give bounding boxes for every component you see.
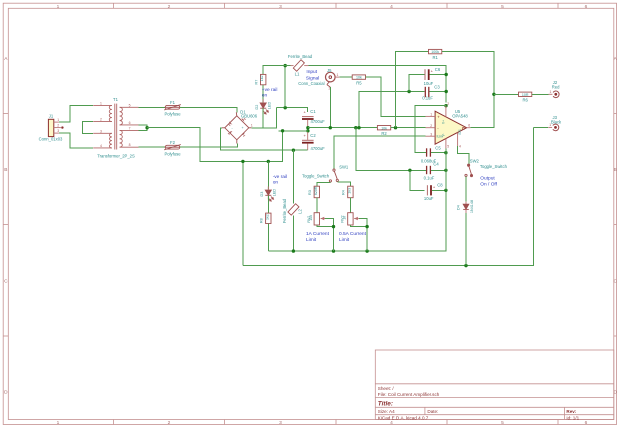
- svg-text:B: B: [4, 167, 7, 173]
- node bead rail junction: [284, 64, 287, 67]
- wire ILIM to SW1: [334, 136, 426, 169]
- node feedback at -in: [394, 126, 397, 129]
- capacitor C6: [424, 67, 441, 86]
- wire T1.2 to T1.3 loop: [82, 122, 93, 134]
- node C4 right: [444, 169, 447, 172]
- node V+ pin junction: [444, 104, 447, 107]
- svg-text:1: 1: [100, 101, 102, 105]
- svg-text:D4: D4: [457, 205, 461, 210]
- svg-text:R1: R1: [433, 55, 439, 60]
- wire C8 right to V- riser: [432, 189, 446, 191]
- svg-text:Conn_Coaxial: Conn_Coaxial: [298, 81, 324, 86]
- wire T1.8 to F2: [139, 146, 166, 148]
- wire -V bus: [268, 190, 446, 251]
- svg-text:+: +: [431, 69, 434, 74]
- wire E/S to SW2: [458, 146, 469, 164]
- toggle switch SW1: [329, 169, 338, 183]
- node -V bus at L2: [292, 249, 295, 252]
- svg-text:1k2: 1k2: [260, 76, 264, 82]
- toggle switch SW2: [465, 164, 473, 177]
- svg-text:+: +: [437, 114, 440, 119]
- svg-text:100k: 100k: [431, 50, 439, 54]
- coaxial connector J5: [326, 68, 340, 90]
- wire D4 to output 0V bus: [465, 213, 467, 266]
- svg-text:Size: A4: Size: A4: [378, 409, 395, 414]
- svg-text:F2: F2: [170, 140, 176, 145]
- svg-text:V-: V-: [442, 133, 446, 136]
- svg-text:Red: Red: [552, 85, 560, 90]
- svg-text:1: 1: [57, 420, 60, 426]
- svg-text:4700uF: 4700uF: [311, 119, 326, 124]
- wire J5 to R5: [339, 76, 352, 78]
- svg-text:Limit: Limit: [306, 237, 317, 243]
- fuse F2: [164, 140, 181, 157]
- svg-text:6: 6: [585, 4, 588, 10]
- svg-text:C6: C6: [435, 67, 441, 72]
- node C6 right on +V riser: [445, 73, 448, 76]
- svg-text:6: 6: [585, 420, 588, 426]
- svg-text:4: 4: [390, 420, 393, 426]
- wire R1 to output riser: [442, 52, 494, 128]
- svg-text:10R: 10R: [522, 93, 529, 97]
- node C6/C3 left join: [407, 90, 410, 93]
- svg-text:J1: J1: [49, 114, 54, 119]
- svg-text:-ve rail: -ve rail: [273, 174, 287, 180]
- svg-text:+: +: [304, 109, 307, 114]
- svg-text:KiCad E.D.A. kicad 4.0.7: KiCad E.D.A. kicad 4.0.7: [378, 415, 429, 420]
- wire SW2 throw to D4: [465, 177, 467, 202]
- svg-text:Conn_01x03: Conn_01x03: [39, 137, 63, 142]
- node -V bus at RV2: [365, 249, 368, 252]
- wire R4 to RV2: [349, 198, 351, 213]
- connector J2 red: [549, 80, 561, 98]
- resistor R1: [429, 49, 442, 60]
- svg-text:C5: C5: [435, 145, 441, 150]
- connector J1: [39, 114, 64, 142]
- node C8 right: [444, 189, 447, 192]
- wire T1.5 to F1: [139, 106, 166, 108]
- svg-text:V+: V+: [442, 120, 446, 124]
- svg-text:10uF: 10uF: [424, 196, 434, 201]
- svg-text:Transformer_2P_2S: Transformer_2P_2S: [97, 154, 135, 159]
- node C3 right on +V riser: [445, 90, 448, 93]
- node 0V bus at x242.9: [241, 160, 244, 163]
- wire R2 to op-amp -in: [391, 127, 426, 129]
- wire D3 to R8: [267, 195, 269, 213]
- wire 0V rail west segment: [279, 130, 308, 132]
- svg-text:5: 5: [447, 145, 449, 149]
- svg-text:L2: L2: [298, 209, 303, 214]
- svg-text:10k: 10k: [381, 126, 387, 130]
- wire +V top rail over to C1: [277, 108, 308, 113]
- svg-text:1A Current: 1A Current: [306, 231, 330, 237]
- capacitor C2: [302, 132, 325, 151]
- svg-text:B: B: [614, 167, 617, 173]
- resistor R3: [308, 186, 320, 198]
- svg-text:GBU606: GBU606: [241, 113, 258, 118]
- node 0V rail down branch: [354, 126, 357, 129]
- svg-text:6: 6: [129, 121, 131, 125]
- svg-text:Date:: Date:: [427, 409, 438, 414]
- wire +V rail bead to right riser: [309, 66, 447, 103]
- wire bead L2 to -V bus: [292, 216, 294, 251]
- node C2 top junction: [306, 129, 309, 132]
- resistor R7: [255, 74, 266, 84]
- capacitor C8: [424, 183, 443, 202]
- svg-text:+ve rail: +ve rail: [262, 87, 278, 93]
- svg-text:3: 3: [430, 132, 432, 136]
- resistor R2: [377, 126, 390, 137]
- svg-text:1: 1: [57, 4, 60, 10]
- svg-text:1: 1: [337, 73, 339, 77]
- svg-text:5: 5: [501, 4, 504, 10]
- LED D3: [265, 186, 273, 201]
- wire centre tap to 0V bus: [147, 128, 282, 162]
- svg-text:A: A: [4, 56, 8, 62]
- capacitor C1: [302, 109, 325, 126]
- node 0V west junction: [281, 129, 284, 132]
- transformer T1: [93, 104, 138, 150]
- wire LED D2 to bridge plus wire: [262, 108, 264, 128]
- wire bridge minus to -V line: [221, 128, 308, 150]
- svg-text:Rev:: Rev:: [566, 409, 576, 414]
- wire R7 to LED D2: [262, 85, 264, 103]
- wire output 0V bus: [243, 127, 534, 265]
- svg-text:E/S: E/S: [458, 129, 462, 134]
- wire J5 shield to 0V rail: [329, 87, 331, 128]
- wire 0V bus down branch to out bus: [242, 161, 244, 265]
- svg-text:R3: R3: [308, 190, 312, 195]
- svg-text:SW1: SW1: [339, 165, 349, 170]
- svg-text:4: 4: [459, 145, 461, 149]
- svg-text:J5: J5: [327, 68, 332, 73]
- wire V- pin riser: [445, 149, 447, 191]
- node output 0V bus at D4: [464, 264, 467, 267]
- svg-text:LED: LED: [273, 189, 277, 197]
- svg-text:3: 3: [279, 420, 282, 426]
- svg-text:2: 2: [100, 118, 102, 122]
- wire J1.1 to T1.1: [59, 105, 93, 122]
- ferrite bead L1: [288, 54, 313, 77]
- svg-text:C2: C2: [310, 133, 316, 138]
- svg-text:+: +: [242, 126, 244, 130]
- wire J1.3 to T1.4: [59, 133, 93, 148]
- svg-text:1k: 1k: [343, 216, 347, 220]
- svg-text:L1: L1: [295, 72, 300, 77]
- svg-text:LED: LED: [268, 102, 272, 110]
- svg-text:R5: R5: [356, 81, 362, 86]
- wire C6 right: [430, 74, 447, 76]
- svg-text:Polyfuse: Polyfuse: [164, 112, 181, 117]
- svg-text:-: -: [232, 126, 234, 130]
- svg-text:on: on: [262, 94, 268, 99]
- connector J3 black: [548, 115, 562, 131]
- svg-text:OPA548: OPA548: [452, 113, 468, 118]
- svg-text:1k3: 1k3: [347, 188, 351, 194]
- wire RV1 bottom to bus: [317, 225, 334, 251]
- svg-text:R8: R8: [260, 218, 264, 223]
- svg-text:+: +: [304, 133, 307, 138]
- svg-text:Toggle_Switch: Toggle_Switch: [480, 164, 508, 169]
- wire F1 to bridge top: [180, 107, 237, 112]
- wire J3 to 0V bus: [534, 126, 549, 128]
- wire RV2 bottom to bus: [350, 225, 367, 251]
- svg-text:C4: C4: [433, 162, 439, 167]
- svg-text:A: A: [614, 56, 618, 62]
- resistor R8: [260, 213, 271, 223]
- svg-text:0.5A Current: 0.5A Current: [339, 231, 367, 237]
- bridge rectifier D1: [222, 112, 251, 143]
- svg-text:1: 1: [550, 90, 552, 94]
- svg-text:10k: 10k: [356, 76, 362, 80]
- wire 0V rail down branch to C4/C8: [356, 128, 410, 171]
- node +V rail junction: [284, 106, 287, 109]
- LED D2: [260, 99, 268, 114]
- svg-text:+: +: [433, 185, 436, 190]
- svg-text:C3: C3: [434, 84, 440, 89]
- svg-text:Polyfuse: Polyfuse: [164, 152, 181, 157]
- node centre tap junction: [145, 126, 148, 129]
- svg-text:1N4148: 1N4148: [470, 200, 474, 213]
- node C1 bottom junction: [306, 126, 309, 129]
- svg-text:D3: D3: [260, 192, 264, 197]
- node RV1 wiper join: [332, 225, 335, 228]
- node -V line junction at L2: [292, 149, 295, 152]
- wire SW1 throw B to R4: [337, 182, 350, 186]
- node J5 shield at 0V rail: [329, 126, 332, 129]
- svg-text:0.1uF: 0.1uF: [422, 96, 433, 101]
- ferrite bead L2: [282, 198, 303, 223]
- wire C4 right to V- riser: [431, 169, 446, 171]
- svg-text:F1: F1: [170, 100, 176, 105]
- node output to R6: [492, 93, 495, 96]
- wire bead rail drop: [284, 66, 286, 108]
- svg-text:Limit: Limit: [339, 237, 350, 243]
- wire F2 to bridge bottom: [180, 144, 238, 148]
- svg-text:5: 5: [501, 420, 504, 426]
- svg-text:7: 7: [129, 126, 131, 130]
- svg-text:1k2: 1k2: [265, 214, 269, 220]
- wire 0V rail up branch to C3/C6: [359, 92, 409, 128]
- node C4 left join: [408, 169, 411, 172]
- svg-text:R4: R4: [342, 190, 346, 195]
- wire SW1 throw A to R3: [317, 182, 331, 186]
- svg-text:On / Off: On / Off: [480, 181, 497, 187]
- svg-text:T1: T1: [113, 97, 119, 102]
- svg-text:C8: C8: [437, 183, 443, 188]
- wire R6 to J2: [532, 93, 549, 95]
- svg-text:D2: D2: [255, 105, 259, 110]
- svg-text:D: D: [4, 390, 8, 396]
- svg-text:8: 8: [129, 143, 131, 147]
- wire +ve rail top (R7 corner to bead): [263, 66, 290, 75]
- svg-text:2: 2: [168, 4, 171, 10]
- svg-text:3: 3: [100, 129, 102, 133]
- svg-text:Black: Black: [551, 119, 562, 124]
- node -V bus at RV1: [332, 249, 335, 252]
- wire C6 left drop: [409, 75, 424, 92]
- svg-text:Ferrite_Bead: Ferrite_Bead: [288, 54, 313, 59]
- svg-text:C1: C1: [310, 109, 316, 114]
- wire D3 chain top: [267, 161, 269, 189]
- fuse F1: [164, 100, 181, 117]
- resistor R6: [519, 92, 532, 102]
- wire C3 left: [409, 91, 424, 93]
- svg-text:SW2: SW2: [470, 158, 480, 163]
- svg-text:Input: Input: [306, 69, 317, 75]
- svg-text:1: 1: [430, 113, 432, 117]
- wire R6 branch: [494, 93, 519, 95]
- svg-text:4: 4: [100, 144, 102, 148]
- resistor R4: [342, 186, 354, 198]
- potentiometer RV2: [341, 213, 359, 225]
- node C5 right: [444, 151, 447, 154]
- svg-text:4700uF: 4700uF: [311, 146, 326, 151]
- capacitor C3: [422, 84, 440, 100]
- node RV2 wiper join: [365, 225, 368, 228]
- wire bridge plus to +V riser: [251, 108, 276, 128]
- svg-text:R2: R2: [381, 131, 387, 136]
- wire R3 to RV1: [316, 198, 318, 213]
- node 0V bus at x268.3: [267, 160, 270, 163]
- wire 0V rail east segment: [308, 127, 378, 129]
- svg-text:2: 2: [168, 420, 171, 426]
- svg-text:Sheet: /: Sheet: /: [378, 386, 395, 391]
- svg-text:3: 3: [57, 129, 59, 133]
- svg-text:File: Coil Current Amplifier.s: File: Coil Current Amplifier.sch: [378, 392, 440, 397]
- diode D4: [463, 202, 469, 213]
- svg-text:3: 3: [279, 4, 282, 10]
- wire R8 to -V bus: [267, 224, 269, 252]
- wire C8 left drop: [410, 170, 425, 190]
- wire T1.6/T1.7 centre tap: [139, 125, 148, 130]
- wire C5 right to V- riser: [431, 152, 446, 154]
- capacitor C4: [424, 162, 440, 181]
- wire C4 left: [410, 169, 426, 171]
- svg-text:2: 2: [57, 124, 59, 128]
- svg-text:4: 4: [390, 4, 393, 10]
- resistor R5: [352, 75, 365, 86]
- svg-text:Toggle_Switch: Toggle_Switch: [302, 174, 330, 179]
- svg-text:5: 5: [129, 103, 131, 107]
- svg-text:Output: Output: [480, 176, 495, 182]
- svg-text:Title:: Title:: [378, 401, 393, 408]
- svg-text:6: 6: [468, 124, 470, 128]
- svg-text:2: 2: [447, 102, 449, 106]
- op-amp U5: [425, 102, 470, 149]
- wire V+ junction to C5 drop: [415, 106, 446, 153]
- capacitor C5: [421, 145, 442, 163]
- node 0V rail up branch: [357, 126, 360, 129]
- potentiometer RV1: [307, 213, 325, 225]
- svg-text:R7: R7: [255, 80, 259, 85]
- svg-text:0.1uF: 0.1uF: [424, 176, 435, 181]
- svg-text:1: 1: [251, 124, 253, 128]
- svg-text:C: C: [4, 279, 8, 285]
- svg-text:2: 2: [430, 124, 432, 128]
- svg-text:Ferrite_Bead: Ferrite_Bead: [282, 198, 287, 223]
- svg-text:R6: R6: [523, 97, 529, 102]
- wire R5 to op-amp +in: [366, 77, 426, 116]
- svg-text:10uF: 10uF: [424, 81, 434, 86]
- wire RV1 wiper to bus: [325, 219, 333, 227]
- wire feedback riser to R1: [396, 52, 429, 128]
- svg-text:Id: 1/1: Id: 1/1: [566, 415, 579, 420]
- svg-text:620R: 620R: [314, 186, 318, 195]
- wire RV2 wiper to bus: [359, 219, 367, 227]
- svg-text:on: on: [273, 181, 279, 186]
- title block: [375, 350, 614, 420]
- wire C3 right: [430, 91, 447, 93]
- svg-text:C: C: [613, 279, 617, 285]
- wire -V down to bead L2: [292, 150, 294, 203]
- svg-text:10k: 10k: [309, 215, 313, 221]
